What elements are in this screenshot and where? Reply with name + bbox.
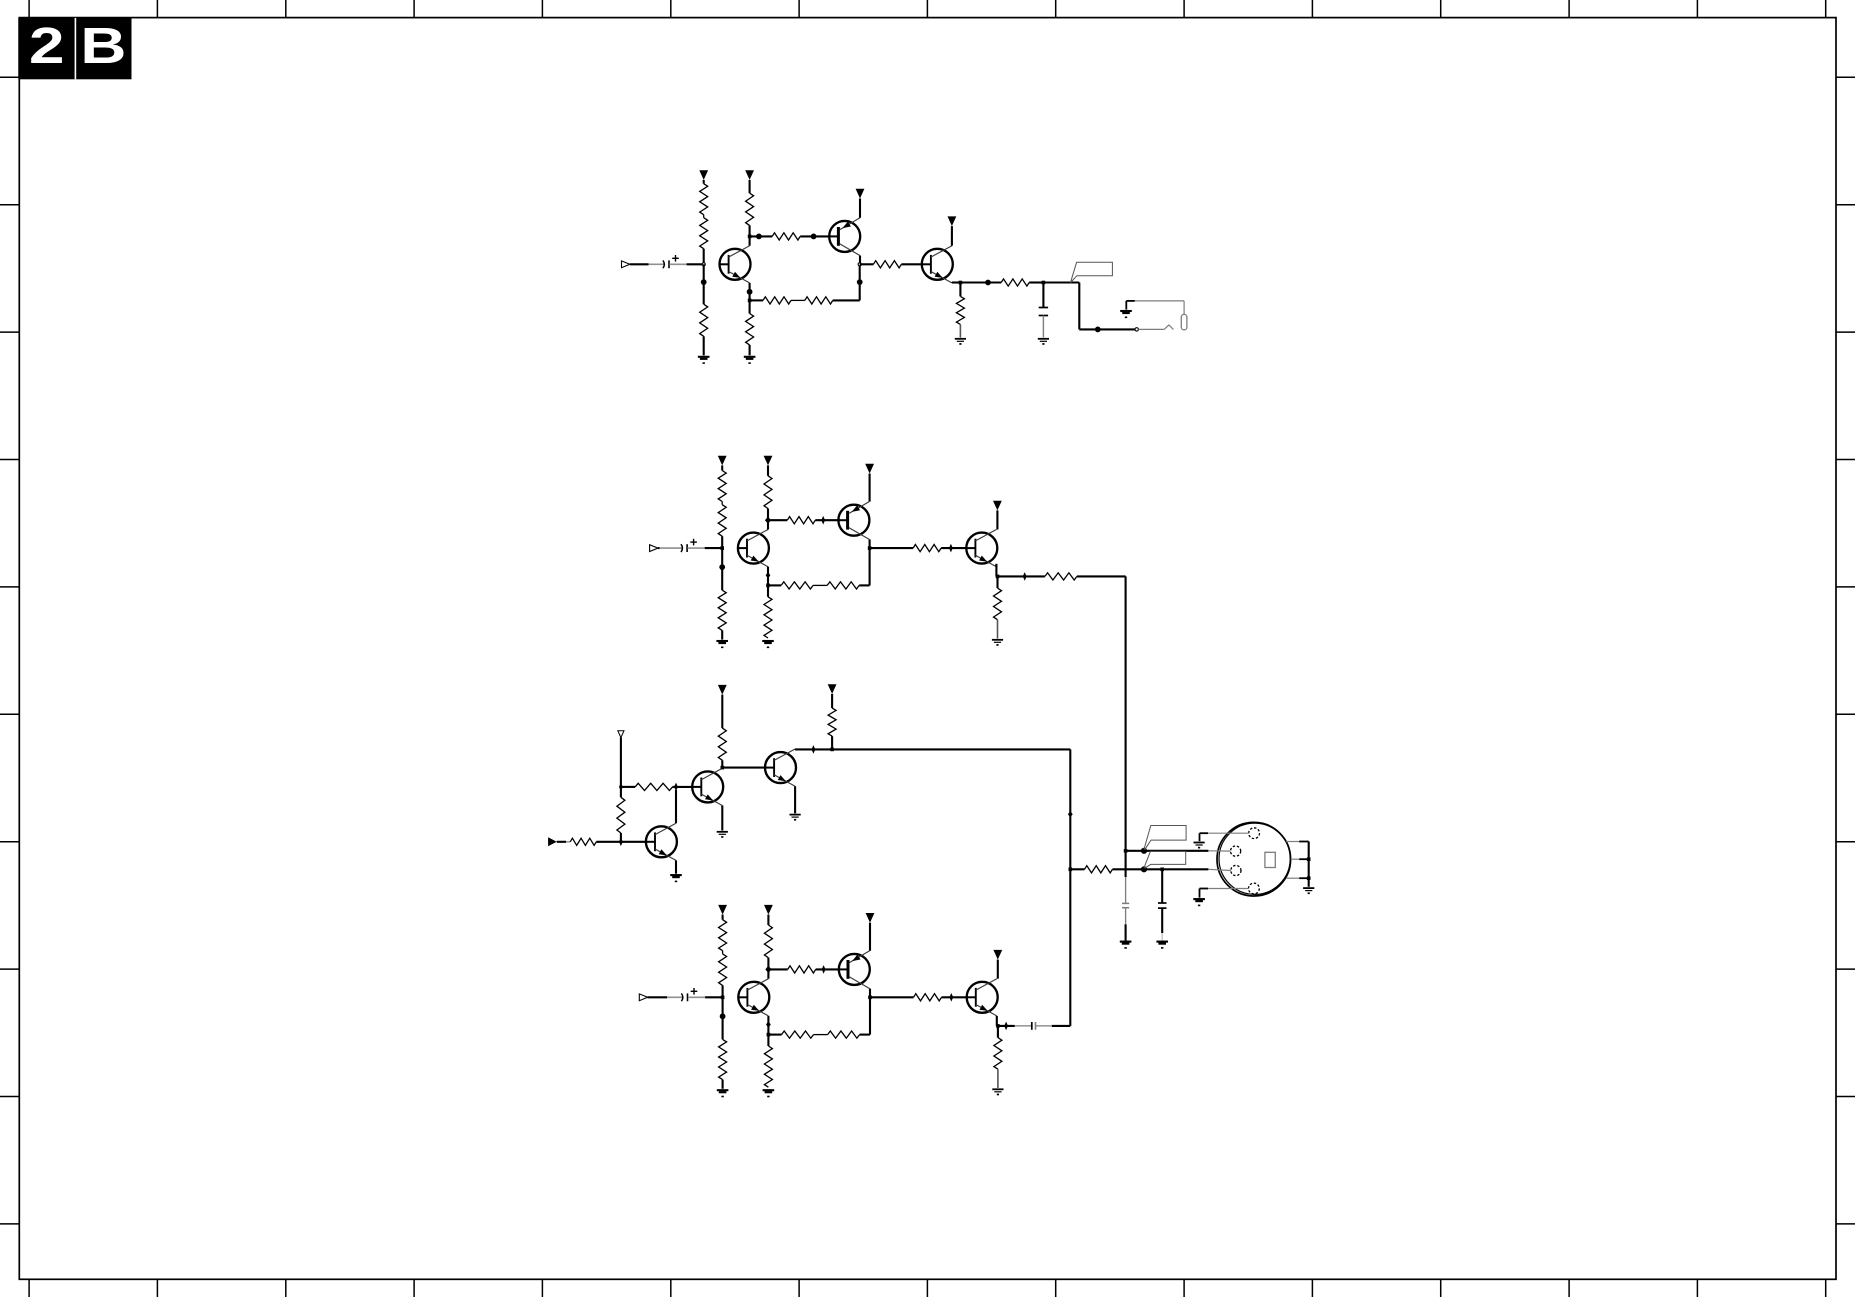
wire xyxy=(596,841,646,843)
wire xyxy=(813,584,827,586)
wire xyxy=(959,283,961,297)
wire xyxy=(768,968,787,970)
svg-text:B: B xyxy=(80,18,126,75)
junction dot xyxy=(811,234,817,240)
wire xyxy=(967,996,976,998)
wire xyxy=(767,958,769,970)
power V+ xyxy=(718,685,727,728)
input connector IN-C xyxy=(548,837,557,846)
resistor RB8 xyxy=(827,582,859,589)
junction (collector node) xyxy=(748,235,752,239)
resistor RD4 xyxy=(764,925,772,958)
wire xyxy=(959,324,961,337)
junction diamond xyxy=(822,965,826,974)
wire xyxy=(997,1026,999,1038)
resistor RB1 xyxy=(718,471,726,502)
resistor RD3 xyxy=(719,1039,727,1079)
power rail (open triangle) xyxy=(618,731,624,738)
resistor RA5 xyxy=(772,233,800,240)
resistor RC4 xyxy=(718,728,726,760)
wire xyxy=(1043,283,1136,330)
power V+ xyxy=(856,189,865,199)
junction dot xyxy=(719,564,725,570)
wire xyxy=(922,263,931,265)
transistor QB2 xyxy=(838,502,869,540)
wire xyxy=(750,299,763,301)
wire xyxy=(859,548,869,585)
wire xyxy=(966,547,975,549)
DIN pin 4 (bottom) xyxy=(1249,883,1260,894)
resistor RA11 xyxy=(1001,279,1029,286)
power V+ (ladder 2) xyxy=(764,456,773,476)
input connector IN-A xyxy=(622,261,630,268)
wire xyxy=(673,786,677,788)
wire (emitter) xyxy=(749,283,751,292)
junction dot xyxy=(985,280,991,286)
wire (emitter) xyxy=(721,806,723,831)
wire (pin2 lead) xyxy=(1208,850,1230,852)
wire (emitter) xyxy=(997,1016,998,1026)
wire xyxy=(1161,869,1163,903)
resistor RD1 xyxy=(719,920,727,951)
wire xyxy=(800,235,829,237)
ground xyxy=(1156,942,1168,948)
resistor RB3 xyxy=(718,590,726,630)
wire xyxy=(870,547,914,549)
power V+ (ladder 2) xyxy=(745,170,754,193)
capacitor CA2 xyxy=(1039,308,1048,316)
wire xyxy=(648,996,683,998)
wire xyxy=(998,575,1045,577)
wire xyxy=(669,263,703,265)
transistor QB1 xyxy=(738,530,769,567)
junction dot xyxy=(747,289,753,295)
wire (emitter) xyxy=(675,860,677,873)
junction diamond xyxy=(766,1021,771,1027)
resistor R-DIN xyxy=(1085,866,1113,873)
wire (collector) xyxy=(767,520,769,529)
wire xyxy=(646,841,655,843)
wire xyxy=(901,263,922,265)
wire xyxy=(765,767,774,769)
wire (collector) xyxy=(869,539,871,548)
wire xyxy=(692,786,701,788)
junction diamond xyxy=(1068,811,1073,817)
node xyxy=(858,263,861,266)
resistor RA6 xyxy=(746,314,754,345)
DIN key slot xyxy=(1265,852,1275,867)
wire (collector) xyxy=(767,969,769,978)
ground xyxy=(1120,311,1132,317)
wire (emitter) xyxy=(767,1016,769,1025)
junction diamond xyxy=(765,966,771,973)
wire xyxy=(1308,842,1310,887)
wire xyxy=(620,833,622,842)
wire xyxy=(998,1025,1032,1027)
ground xyxy=(992,1089,1003,1095)
wire xyxy=(722,985,724,997)
wire xyxy=(1125,851,1127,903)
ground xyxy=(790,815,801,821)
resistor RC3 xyxy=(635,783,672,790)
ground xyxy=(1193,899,1205,905)
wire xyxy=(941,547,966,549)
junction (collector node) xyxy=(868,546,872,550)
ground xyxy=(717,1090,729,1096)
wire (shell bottom lead) xyxy=(1286,877,1309,879)
connector flag (jack contact 1) xyxy=(1144,826,1186,850)
wire xyxy=(859,266,861,282)
transistor QD3 xyxy=(967,979,998,1016)
wire xyxy=(767,585,769,596)
wire xyxy=(767,1025,769,1035)
wire xyxy=(814,1034,828,1036)
wire xyxy=(829,235,838,237)
wire xyxy=(703,249,705,265)
junction diamond xyxy=(619,838,623,847)
transistor QC2 xyxy=(692,768,723,805)
wire xyxy=(620,738,622,787)
power V+ (ladder 1) xyxy=(718,456,727,471)
wire xyxy=(997,620,999,639)
transistor QB3 xyxy=(966,530,997,567)
svg-text:2: 2 xyxy=(29,18,64,75)
wire xyxy=(1042,283,1044,308)
node (switch contact) xyxy=(1135,328,1138,331)
wire xyxy=(768,584,781,586)
junction diamond xyxy=(949,544,953,553)
connector flag (jack contact 2) xyxy=(1144,851,1186,868)
wire xyxy=(839,519,848,521)
ground xyxy=(698,357,710,363)
junction xyxy=(1307,876,1311,880)
wire xyxy=(1126,301,1135,310)
capacitor CA1 (input coupling) xyxy=(663,255,679,268)
resistor RA9 xyxy=(873,261,901,268)
resistor RB11 xyxy=(994,588,1002,620)
resistor RB7 xyxy=(781,582,813,589)
power V+ (ladder 1) xyxy=(718,905,727,920)
resistor RB4 xyxy=(764,476,772,509)
ground xyxy=(717,832,728,838)
junction diamond xyxy=(674,783,678,792)
wire (collector) xyxy=(859,256,861,263)
wire xyxy=(688,996,723,998)
wire xyxy=(721,567,723,590)
wire xyxy=(676,786,692,788)
resistor RD9 xyxy=(914,994,942,1001)
wire xyxy=(860,263,874,265)
wire xyxy=(960,281,1001,283)
resistor RA8 xyxy=(805,297,833,304)
resistor RB9 xyxy=(913,545,941,552)
resistor RD10 xyxy=(994,1038,1002,1070)
wire (emitter) xyxy=(794,786,796,813)
junction (input node) xyxy=(720,546,724,550)
wire xyxy=(795,748,1070,750)
wire (collector) xyxy=(749,236,751,245)
transistor QC3 xyxy=(765,749,796,786)
wire xyxy=(1070,868,1084,870)
wire xyxy=(815,519,838,521)
junction xyxy=(1042,281,1046,285)
wire xyxy=(722,997,724,1016)
transistor QA2 xyxy=(829,218,860,256)
junction diamond xyxy=(812,745,816,754)
resistor RA3 xyxy=(700,304,708,336)
resistor RA2 xyxy=(700,215,708,249)
junction dot xyxy=(1141,848,1147,854)
wire xyxy=(557,841,571,843)
DIN pin 2 (upper left) xyxy=(1231,846,1241,856)
junction diamond xyxy=(1004,1022,1008,1031)
input connector IN-B xyxy=(650,545,658,552)
wire (row 2) xyxy=(1113,868,1209,870)
ground xyxy=(1194,843,1205,849)
wire (collector) xyxy=(869,989,871,998)
resistor RA1 xyxy=(700,184,708,215)
wire (pin1 lead) xyxy=(1200,833,1249,841)
junction (input node) xyxy=(721,996,725,1000)
junction dot xyxy=(756,234,762,240)
wire xyxy=(703,264,705,282)
resistor RC2 xyxy=(617,797,625,833)
wire xyxy=(703,336,705,355)
wire xyxy=(721,630,723,639)
power V+ xyxy=(993,501,1002,530)
capacitor C-DIN1 xyxy=(1122,903,1129,907)
resistor RB2 xyxy=(718,502,726,537)
input connector IN-D xyxy=(639,994,647,1001)
resistor RC5 xyxy=(828,708,836,736)
wire xyxy=(997,1069,999,1088)
wire (emitter) xyxy=(767,567,769,576)
wire xyxy=(620,787,622,797)
zone label 2B xyxy=(18,18,131,80)
junction xyxy=(766,584,770,588)
wire xyxy=(768,519,787,521)
wire xyxy=(816,968,839,970)
resistor RD6 xyxy=(764,1046,772,1087)
wire (emitter) xyxy=(869,923,871,951)
ground xyxy=(762,641,774,647)
junction diamond xyxy=(821,516,825,525)
power V+ xyxy=(993,950,1002,979)
wire (bus down) xyxy=(1069,749,1071,869)
junction dot xyxy=(857,279,863,285)
resistor RD7 xyxy=(782,1031,814,1038)
power V+ xyxy=(865,464,874,474)
ground xyxy=(716,641,728,647)
wire xyxy=(722,1016,724,1039)
wire xyxy=(833,282,860,300)
wire xyxy=(768,1034,781,1036)
wire xyxy=(1042,316,1044,338)
wire xyxy=(749,292,751,301)
wire (emitter) xyxy=(859,199,861,218)
wire xyxy=(630,263,664,265)
wire (emitter) xyxy=(869,474,871,502)
junction xyxy=(721,766,725,770)
wire xyxy=(721,760,723,767)
ground xyxy=(763,1090,775,1096)
junction diamond xyxy=(949,993,953,1002)
junction xyxy=(1124,849,1128,853)
wire xyxy=(749,225,751,236)
connector JA1 flag xyxy=(1070,262,1112,283)
resistor RA7 xyxy=(763,297,791,304)
wire xyxy=(1125,908,1127,941)
capacitor CD1 (input coupling) xyxy=(681,988,697,1001)
junction diamond xyxy=(619,783,623,792)
junction xyxy=(959,281,963,285)
wire xyxy=(722,1080,724,1089)
wire xyxy=(1029,281,1043,283)
DIN pin 1 (top) xyxy=(1249,828,1260,839)
capacitor C-DIN2 xyxy=(1158,903,1167,908)
power V+ (ladder 2) xyxy=(764,905,773,925)
ground xyxy=(955,339,966,345)
ground xyxy=(992,640,1003,646)
junction diamond xyxy=(766,572,771,578)
wire xyxy=(870,996,914,998)
power V+ xyxy=(948,216,957,245)
wire xyxy=(1077,576,1126,850)
wire (QC1 collector) xyxy=(675,790,677,823)
wire xyxy=(703,282,705,304)
resistor RD5 xyxy=(788,966,816,973)
transistor QA1 xyxy=(720,246,751,283)
junction dot xyxy=(1095,327,1101,333)
wire xyxy=(942,996,967,998)
wire xyxy=(722,767,765,769)
wire xyxy=(1036,869,1071,1026)
ground xyxy=(670,875,682,881)
junction diamond xyxy=(1023,572,1027,581)
wire (pin4 lead) xyxy=(1200,889,1249,898)
junction dot xyxy=(701,279,707,285)
wire xyxy=(767,575,769,585)
wire xyxy=(688,547,723,549)
junction xyxy=(767,1033,771,1037)
power V+ xyxy=(828,684,837,708)
wire xyxy=(831,736,833,749)
resistor RA10 xyxy=(956,296,964,324)
wire xyxy=(621,786,635,788)
transistor QD2 xyxy=(839,951,870,989)
wire (emitter) xyxy=(952,281,961,283)
connector DIN (shell) xyxy=(1217,822,1291,896)
wire xyxy=(839,968,848,970)
resistor RB6 xyxy=(764,597,772,638)
wire xyxy=(767,1035,769,1046)
power V+ (ladder 1) xyxy=(699,170,708,184)
ground xyxy=(1303,888,1314,894)
resistor RB5 xyxy=(787,517,815,524)
wire xyxy=(767,509,769,521)
wire xyxy=(749,300,751,313)
wire xyxy=(721,536,723,548)
DIN pin 3 (lower left) xyxy=(1231,865,1241,875)
transistor QD1 xyxy=(738,979,769,1016)
wire xyxy=(860,997,870,1034)
wire (shell top lead) xyxy=(1286,841,1309,843)
resistor RB10 xyxy=(1045,573,1077,580)
wire (emitter) xyxy=(996,564,997,577)
ground xyxy=(744,357,756,363)
capacitor CB1 (input coupling) xyxy=(681,539,697,552)
resistor RC1 xyxy=(570,838,596,845)
wire (shield lead) xyxy=(1291,858,1309,860)
wire xyxy=(721,548,723,567)
resistor RD8 xyxy=(828,1031,860,1038)
wire xyxy=(749,345,751,355)
junction xyxy=(996,575,1000,579)
wire xyxy=(750,235,773,237)
capacitor CD2 xyxy=(1032,1022,1036,1030)
resistor RD2 xyxy=(719,951,727,986)
junction (collector node) xyxy=(868,996,872,1000)
node (input bias) xyxy=(702,263,705,266)
ground xyxy=(1038,339,1049,345)
connector JA1 tip contact xyxy=(1135,301,1187,330)
wire xyxy=(996,576,998,588)
junction xyxy=(996,1024,1000,1028)
wire (jack switch) xyxy=(1139,325,1174,329)
resistor RA4 xyxy=(746,193,754,225)
wire (row 1) xyxy=(1126,850,1209,852)
wire (pin3 lead) xyxy=(1208,869,1230,870)
wire xyxy=(658,547,682,549)
junction diamond xyxy=(765,517,771,524)
junction xyxy=(748,299,752,303)
wire (collector) xyxy=(721,767,723,770)
transistor QC1 xyxy=(646,823,677,860)
wire xyxy=(1161,908,1163,941)
junction dot xyxy=(1141,866,1147,872)
transistor QA3 xyxy=(922,246,953,283)
power V+ xyxy=(866,913,875,923)
ground xyxy=(1120,942,1132,948)
wire (collector) xyxy=(794,748,796,751)
junction xyxy=(1307,857,1311,861)
wire xyxy=(791,299,805,301)
junction dot xyxy=(720,1013,726,1019)
junction xyxy=(1160,868,1164,872)
junction xyxy=(1069,868,1073,872)
junction xyxy=(830,748,834,752)
